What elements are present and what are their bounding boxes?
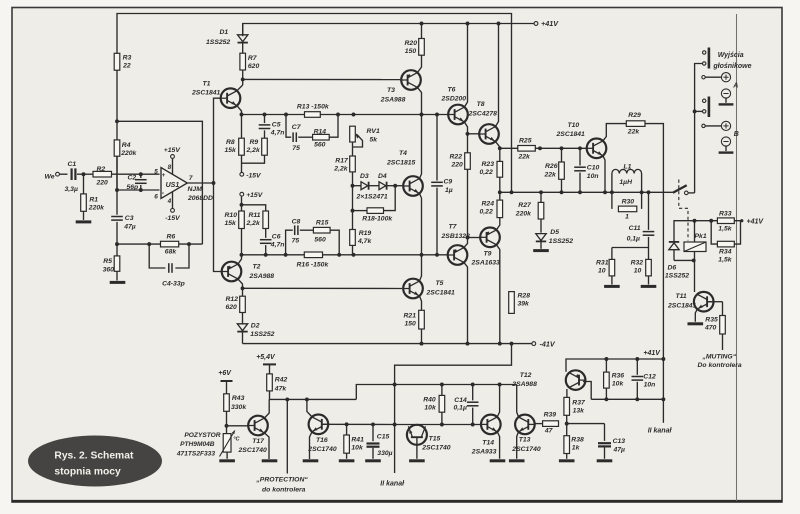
transistor T12 [511, 370, 585, 390]
svg-text:150: 150 [405, 48, 417, 55]
svg-text:T11: T11 [676, 293, 687, 300]
svg-text:D3: D3 [360, 173, 369, 180]
wire T1 emitter [237, 106, 242, 115]
svg-text:2SC1740: 2SC1740 [238, 447, 268, 454]
svg-text:3,3µ: 3,3µ [65, 186, 78, 193]
transistor T11 [667, 292, 714, 312]
svg-text:47µ: 47µ [123, 223, 136, 230]
resistor R4 [114, 140, 137, 157]
wire C1 to R2 [77, 172, 93, 176]
svg-text:T12: T12 [520, 372, 532, 379]
capacitor C1 [65, 161, 78, 193]
svg-text:4,7k: 4,7k [357, 238, 372, 245]
wire T10 emitter [603, 156, 605, 193]
wire T8 base [468, 133, 479, 135]
label II kanal left [380, 481, 405, 488]
svg-text:D6: D6 [668, 264, 677, 271]
svg-text:2SB1328: 2SB1328 [441, 233, 471, 240]
resistor R16 [297, 252, 330, 269]
wire to speaker column [693, 64, 703, 193]
svg-text:2SA988: 2SA988 [249, 273, 275, 280]
relay Pk1 [684, 221, 707, 261]
resistor R6 [161, 234, 179, 256]
svg-text:T9: T9 [484, 251, 492, 258]
svg-text:47µ: 47µ [613, 447, 626, 454]
svg-text:T13: T13 [519, 437, 531, 444]
capacitor C4 loop [147, 242, 191, 287]
svg-text:-41V: -41V [540, 339, 556, 348]
svg-text:Do kontrolera: Do kontrolera [698, 362, 742, 369]
wire mid row384 [356, 383, 516, 400]
terminal A plus [702, 73, 731, 82]
svg-text:360: 360 [103, 266, 115, 273]
svg-text:T5: T5 [436, 280, 444, 287]
wire T11 emitter ground [695, 309, 697, 322]
resistor R8 [225, 115, 245, 156]
resistor R1 [81, 194, 105, 212]
svg-text:R19: R19 [359, 230, 372, 237]
node feedback node [115, 242, 119, 246]
svg-text:C3: C3 [125, 215, 134, 222]
svg-text:4,7n: 4,7n [270, 129, 285, 136]
resistor R31 [596, 248, 615, 285]
svg-text:„MUTING“: „MUTING“ [702, 353, 737, 360]
label protection [255, 477, 308, 494]
ground R31 [604, 285, 620, 288]
svg-text:C7: C7 [292, 124, 302, 131]
wire R18 row [351, 186, 396, 213]
wire R1 stub [83, 174, 85, 194]
svg-text:R42: R42 [275, 376, 288, 383]
resistor R25 [518, 137, 536, 160]
svg-text:R41: R41 [351, 437, 364, 444]
transistor T2 [222, 262, 275, 282]
wire feedback loop [115, 119, 202, 244]
node -41V terminal [532, 339, 556, 348]
svg-text:+15V: +15V [164, 147, 182, 154]
svg-text:R4: R4 [122, 142, 131, 149]
svg-text:39k: 39k [518, 301, 531, 308]
wire T2 collector [238, 279, 245, 290]
transistor T16 [307, 415, 337, 454]
svg-text:C12: C12 [643, 373, 656, 380]
capacitor C15 [367, 424, 393, 458]
svg-text:R30: R30 [622, 198, 635, 205]
switch output [673, 185, 695, 194]
wire R10 to row [241, 229, 243, 255]
resistor R26 [544, 148, 565, 192]
resistor R35 [704, 316, 725, 335]
svg-text:1SS252: 1SS252 [665, 273, 689, 280]
svg-text:B: B [734, 131, 739, 138]
svg-text:10k: 10k [612, 380, 625, 387]
resistor R40 [423, 385, 445, 425]
svg-text:2×1S2471: 2×1S2471 [356, 193, 388, 200]
svg-text:„PROTECTION“: „PROTECTION“ [255, 477, 308, 484]
ground R32 [641, 285, 657, 288]
resistor R24 [480, 192, 503, 217]
svg-text:R38: R38 [571, 437, 584, 444]
transistor T8 [468, 101, 499, 144]
svg-text:5k: 5k [370, 136, 379, 143]
svg-text:75: 75 [292, 145, 300, 152]
node +15V terminal [240, 192, 264, 199]
wire R25 row [500, 146, 586, 150]
svg-text:2068DD: 2068DD [187, 195, 213, 202]
wire T17 collector [264, 399, 269, 418]
capacitor C14 [454, 385, 479, 425]
wire R31 R32 row [612, 247, 649, 249]
svg-text:T10: T10 [568, 122, 580, 129]
node We input terminal [45, 172, 60, 180]
resistor R37 [564, 397, 586, 415]
capacitor C2 [127, 172, 147, 192]
svg-text:2SC1841: 2SC1841 [426, 290, 456, 297]
resistor R38 [564, 424, 584, 459]
svg-text:T6: T6 [448, 87, 456, 94]
resistor R41 [344, 424, 364, 459]
svg-text:15k: 15k [225, 220, 238, 227]
wire R7 to T1 [241, 70, 245, 85]
wire R8 R9 join [242, 155, 265, 172]
potentiometer RV1 [350, 126, 380, 147]
svg-text:R22: R22 [450, 154, 463, 161]
label pozystor [176, 432, 221, 457]
svg-text:10: 10 [634, 268, 642, 275]
svg-text:22k: 22k [544, 172, 558, 179]
op-amp US1 [154, 168, 213, 202]
svg-text:1SS252: 1SS252 [250, 331, 274, 338]
svg-text:A: A [732, 83, 738, 90]
svg-text:0,1µ: 0,1µ [627, 235, 640, 242]
svg-text:stopnia mocy: stopnia mocy [54, 466, 121, 477]
node rail2 junctions [420, 22, 501, 26]
svg-text:R23: R23 [482, 161, 495, 168]
svg-text:R18-100k: R18-100k [362, 216, 393, 223]
svg-text:1µ: 1µ [445, 187, 453, 194]
wire relay drive row [674, 219, 741, 242]
svg-text:R43: R43 [232, 395, 245, 402]
wire T16 base row [322, 422, 397, 426]
svg-text:R26: R26 [545, 163, 558, 170]
wire L1 R30 box [610, 174, 644, 209]
svg-text:0,22: 0,22 [480, 209, 493, 216]
resistor R33 [717, 211, 734, 233]
svg-text:2SC1841: 2SC1841 [556, 131, 586, 138]
resistor R12 [226, 288, 246, 312]
svg-text:R7: R7 [248, 55, 258, 62]
capacitor C13 [598, 438, 625, 459]
transistor T17 [238, 416, 268, 455]
wire T5 base rail [243, 287, 403, 289]
wire R1 to ground [83, 211, 85, 220]
svg-text:470: 470 [704, 324, 717, 331]
transistor T14 [471, 415, 501, 456]
svg-text:C8: C8 [292, 218, 301, 225]
svg-text:6: 6 [154, 194, 158, 201]
svg-text:220k: 220k [515, 210, 532, 217]
svg-text:-15V: -15V [246, 172, 262, 179]
wire upper row y114 [242, 114, 448, 116]
label muting [698, 353, 742, 369]
connector bar 2 [703, 97, 709, 118]
wire T17 emitter [264, 433, 269, 459]
resistor R18 [362, 208, 393, 223]
label B [734, 131, 739, 138]
svg-text:R20: R20 [405, 40, 418, 47]
resistor R32 [631, 248, 652, 285]
svg-text:C2: C2 [128, 175, 137, 182]
ground T11 [688, 322, 704, 325]
switch link dashed [679, 180, 688, 241]
label speaker outputs [712, 52, 751, 70]
svg-text:4,7n: 4,7n [270, 242, 285, 249]
ground R38 [559, 459, 575, 462]
svg-text:150: 150 [405, 321, 417, 328]
svg-text:R34: R34 [719, 248, 732, 255]
svg-text:+15V: +15V [246, 192, 264, 199]
svg-text:22: 22 [122, 62, 131, 69]
resistor R22 [450, 134, 471, 170]
wire T10 collector [603, 124, 626, 141]
wire T1 collector [237, 85, 243, 91]
wire opamp output [187, 181, 215, 185]
ground T16 [303, 459, 319, 462]
resistor R20 [405, 24, 425, 56]
svg-text:+41V: +41V [541, 19, 559, 28]
svg-text:1k: 1k [572, 445, 581, 452]
capacitor C6 [260, 229, 285, 255]
ground D5 [533, 249, 549, 252]
svg-text:2SD200: 2SD200 [441, 96, 467, 103]
wire R17 to D3 node [351, 172, 355, 188]
resistor R23 [480, 148, 503, 177]
capacitor C11 [627, 192, 655, 247]
capacitor C9 [431, 115, 453, 255]
resistor R21 [404, 310, 425, 343]
wire R11 branch [242, 205, 266, 211]
svg-text:D1: D1 [220, 29, 229, 36]
svg-text:D5: D5 [550, 229, 559, 236]
svg-text:10: 10 [598, 268, 606, 275]
diode D2 [237, 313, 274, 344]
ground C15 [365, 459, 381, 462]
wire T13 collector [517, 385, 519, 418]
wire relay bottom node [674, 258, 696, 292]
svg-text:+5,4V: +5,4V [256, 354, 276, 361]
svg-text:2,2k: 2,2k [246, 147, 261, 154]
wire T10 base [585, 147, 588, 149]
svg-text:2,2k: 2,2k [246, 220, 261, 227]
resistor R34 loop [711, 221, 740, 244]
wire T12 collector [583, 382, 591, 400]
transistor T9 [471, 228, 501, 267]
svg-text:330µ: 330µ [377, 450, 392, 457]
svg-text:1,5k: 1,5k [718, 226, 732, 233]
terminal A minus [719, 89, 734, 105]
inductor L1 [612, 163, 642, 186]
diode D6 [665, 242, 689, 280]
svg-text:R1: R1 [89, 197, 98, 204]
wire T13 emitter [517, 432, 519, 459]
svg-text:PTH9M04B: PTH9M04B [180, 441, 215, 448]
svg-text:7: 7 [189, 175, 193, 182]
resistor R5 [103, 244, 120, 273]
wire T5 collector [419, 255, 421, 281]
svg-text:R32: R32 [631, 260, 644, 267]
svg-text:T1: T1 [203, 81, 211, 88]
label A [732, 83, 738, 90]
transistor T3 [380, 70, 421, 103]
svg-text:do kontrolera: do kontrolera [262, 486, 306, 493]
svg-text:R12: R12 [226, 296, 239, 303]
wire R43 to base [225, 411, 248, 433]
wire base drive vertical [214, 98, 223, 271]
svg-text:R11: R11 [249, 212, 261, 219]
resistor R39 [543, 411, 559, 434]
wire R2 to opamp [112, 173, 160, 175]
svg-text:L1: L1 [624, 163, 632, 170]
wire row399 [591, 359, 665, 401]
svg-text:R39: R39 [544, 411, 557, 418]
svg-text:II kanał: II kanał [648, 427, 673, 434]
wire T2 emitter [238, 255, 242, 264]
svg-text:1SS252: 1SS252 [549, 238, 573, 245]
wire T14 emitter [497, 432, 499, 459]
ground R5 [110, 281, 126, 284]
wire rowP [395, 344, 512, 473]
svg-text:2SC1740: 2SC1740 [307, 446, 337, 453]
wire +15V to R10 [240, 196, 244, 211]
diode D1 [206, 24, 248, 54]
wire inverting input [115, 188, 159, 192]
wire feedback top rail [117, 14, 512, 193]
node +41V relay terminal [740, 218, 764, 225]
svg-text:8: 8 [168, 164, 172, 171]
diode D3 [353, 173, 369, 190]
svg-text:R29: R29 [628, 112, 641, 119]
svg-text:głośnikowe: głośnikowe [712, 63, 751, 70]
svg-text:560: 560 [314, 142, 326, 149]
wire T4 emitter [419, 193, 421, 254]
wire +41V row Q [566, 357, 665, 372]
svg-text:T17: T17 [252, 438, 265, 445]
resistor R2 [93, 166, 112, 187]
wire R37 to node [565, 415, 569, 425]
wire T9 emitter [496, 218, 499, 230]
svg-text:0,1µ: 0,1µ [454, 404, 467, 411]
svg-text:+: + [162, 173, 166, 179]
resistor R3 [114, 53, 131, 70]
wire +41V rail [243, 24, 534, 37]
capacitor C5 [259, 115, 285, 137]
resistor R7 [240, 53, 260, 70]
svg-text:R36: R36 [612, 372, 625, 379]
wire R6 row [117, 243, 202, 245]
resistor R15 [313, 227, 330, 233]
wire R35 open [722, 334, 724, 350]
wire T11 base [707, 302, 722, 316]
wire T8 collector [495, 24, 498, 127]
svg-text:47k: 47k [274, 385, 288, 392]
node lower row dots [240, 253, 439, 257]
svg-text:220k: 220k [88, 205, 105, 212]
svg-text:R28: R28 [518, 293, 531, 300]
svg-text:R24: R24 [482, 201, 495, 208]
wire R39 to T13 [534, 423, 543, 425]
capacitor C12 [632, 359, 656, 399]
wire T3 emitter [417, 55, 421, 72]
svg-text:2SC1841: 2SC1841 [191, 90, 221, 97]
resistor R14 [313, 134, 330, 140]
svg-text:2SC1815: 2SC1815 [386, 160, 416, 167]
svg-text:1SS252: 1SS252 [206, 39, 230, 46]
svg-text:68k: 68k [165, 249, 178, 256]
resistor R13 [297, 103, 330, 117]
svg-text:D4: D4 [378, 173, 387, 180]
svg-text:T7: T7 [449, 224, 458, 231]
wire -41V rail [243, 342, 532, 346]
resistor R17 [333, 156, 355, 173]
resistor R43 [224, 394, 248, 412]
svg-text:T2: T2 [253, 264, 261, 271]
node +6V terminal [218, 370, 232, 394]
svg-text:T4: T4 [399, 150, 407, 157]
wire pin8 +15V [164, 147, 182, 174]
svg-text:10n: 10n [644, 382, 656, 389]
svg-text:22k: 22k [627, 129, 641, 136]
svg-text:Rys. 2. Schemat: Rys. 2. Schemat [54, 450, 134, 461]
ground R41 [339, 459, 355, 462]
svg-text:2SC1841: 2SC1841 [667, 303, 697, 310]
transistor T1 [191, 81, 240, 108]
ground R1 [76, 220, 92, 223]
wire R23 to node [498, 177, 502, 194]
wire T14 collector [497, 385, 499, 418]
svg-text:10n: 10n [587, 173, 599, 180]
wire T16 emitter [310, 432, 313, 459]
svg-text:5: 5 [154, 168, 158, 175]
wire T7 collector [464, 262, 468, 343]
terminal B plus [702, 121, 731, 130]
wire T5 emitter [419, 296, 421, 310]
wire R29 to vertical [645, 124, 663, 359]
svg-text:R16 -150k: R16 -150k [297, 262, 330, 269]
svg-text:75: 75 [292, 238, 300, 245]
svg-text:0,22: 0,22 [480, 169, 493, 176]
wire T3 collector [417, 87, 421, 114]
capacitor C7 R14 loop [286, 115, 338, 152]
svg-text:330k: 330k [231, 404, 247, 411]
svg-text:+41V: +41V [643, 350, 661, 357]
diode D4 [356, 173, 388, 201]
wire T6 emitter [464, 122, 469, 136]
wire R22 to T9 base [466, 169, 480, 239]
ground T15 [409, 459, 425, 462]
capacitor C3 [111, 156, 136, 244]
svg-text:R5: R5 [103, 258, 112, 265]
node +41V terminal [534, 19, 559, 28]
wire II kanal stub [648, 399, 673, 434]
node -15V terminal [240, 172, 262, 179]
node upper row dots [240, 113, 439, 117]
wire output node row [500, 190, 673, 194]
svg-text:2SC1740: 2SC1740 [511, 446, 541, 453]
svg-text:R8: R8 [226, 139, 235, 146]
svg-text:C15: C15 [377, 434, 390, 441]
svg-text:2SC1740: 2SC1740 [421, 445, 451, 452]
capacitor C10 [574, 148, 599, 192]
